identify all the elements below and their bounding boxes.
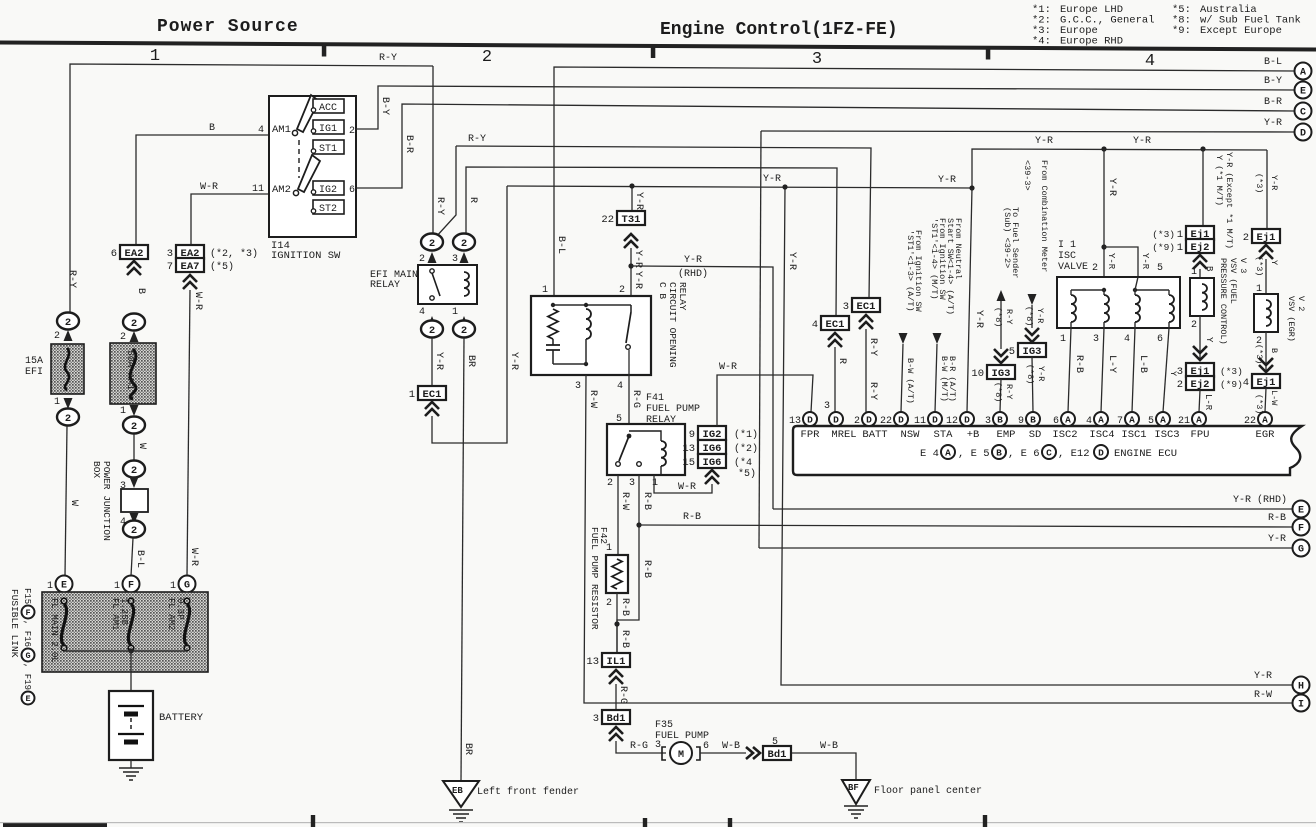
svg-text:F35: F35 [655,720,673,731]
svg-text:3: 3 [843,301,849,313]
svg-text:A: A [945,447,951,458]
svg-text:2: 2 [461,238,467,250]
svg-text:Y: Y [1204,337,1214,343]
wire Y-R RHD to junction E [773,508,1294,510]
svg-text:L-R: L-R [1203,394,1213,411]
svg-text:From Combination Meter: From Combination Meter [1039,160,1049,272]
wire B-L to junction F [131,538,133,576]
svg-text:5: 5 [1157,263,1163,274]
svg-text:R-Y: R-Y [1004,309,1014,324]
svg-text:RELAY: RELAY [677,282,688,311]
svg-text:2: 2 [349,126,355,137]
svg-text:A: A [1196,415,1202,426]
svg-text:ENGINE ECU: ENGINE ECU [1114,448,1177,460]
svg-text:B: B [1030,415,1036,426]
svg-text:2: 2 [131,421,137,433]
svg-text:Bd1: Bd1 [607,713,626,725]
svg-text:3: 3 [629,478,635,489]
svg-text:B: B [996,447,1002,458]
connector 22 T31 [617,211,645,225]
wire B-Y from IG1 to junction E top [356,86,1294,129]
wire Y-R to junction G [759,547,1294,549]
svg-text:1: 1 [1060,334,1066,345]
connector 3 EA2 [176,245,204,259]
svg-text:A: A [1129,415,1135,426]
svg-text:EGR: EGR [1256,429,1276,441]
svg-text:ACC: ACC [319,103,337,114]
svg-text:R-B: R-B [641,560,652,578]
chevron Bd1 5 [746,747,760,759]
svg-text:B: B [209,123,215,134]
wire R-B to junction F [639,525,1294,527]
svg-text:1: 1 [114,581,120,592]
svg-text:2: 2 [606,598,612,609]
svg-text:Y: Y [1269,260,1279,265]
svg-text:2: 2 [1092,263,1098,274]
fusible link FL MAIN 2.0L [61,598,67,604]
svg-text:6: 6 [1157,334,1163,345]
svg-text:(RHD): (RHD) [678,268,708,280]
battery cell symbol [118,706,144,734]
junction dot T31 tap [629,183,634,188]
fusible link FL AM2 0.3P [184,598,190,604]
fuel pump resistor box [606,555,628,593]
fuse 50A AM1 element [130,349,136,399]
chevron EC1 3 [859,315,873,329]
svg-text:12: 12 [946,416,958,427]
svg-text:(*2): (*2) [734,443,758,455]
svg-text:M: M [678,750,684,761]
svg-text:1: 1 [542,285,548,296]
svg-text:R-B: R-B [619,598,630,616]
junction F [123,576,140,593]
svg-text:2: 2 [1191,320,1197,331]
svg-text:FUEL PUMP: FUEL PUMP [655,731,709,742]
ignition switch box [269,96,356,237]
fusible link box [42,592,208,672]
wire B-L from circuit opening relay to junction A [554,67,1294,296]
svg-text:<39-3>: <39-3> [1022,160,1032,191]
svg-text:Europe RHD: Europe RHD [1060,36,1123,48]
svg-text:4: 4 [1086,416,1092,427]
arrow pin3 [460,252,469,263]
svg-text:EB: EB [452,786,463,796]
wire B to VSV3 [1199,269,1201,278]
svg-text:VALVE: VALVE [1058,262,1088,273]
svg-text:A: A [1098,415,1104,426]
svg-text:R-G: R-G [617,686,628,704]
section tick marks [322,45,327,57]
svg-text:W-R: W-R [200,182,218,193]
svg-text:3: 3 [655,740,661,751]
svg-text:R: R [836,358,847,364]
wire B-W to NSW [901,344,903,412]
svg-text:2: 2 [1177,379,1183,391]
arrow into connector [130,331,139,342]
wire B-R from IG2 to junction C [356,104,1294,188]
EFI relay switch [430,269,434,273]
relay internal top rail [553,304,631,306]
svg-text:E: E [1298,506,1304,517]
svg-text:W-B: W-B [820,741,838,752]
arrow out of junction box [130,513,139,524]
wire W-B to ground BF [792,753,856,780]
svg-text:B: B [1269,348,1279,353]
svg-text:3: 3 [1093,334,1099,345]
svg-text:D: D [807,415,813,426]
svg-text:IG3: IG3 [1023,346,1042,358]
svg-text:Engine Control(1FZ-FE): Engine Control(1FZ-FE) [660,20,898,40]
svg-text:1: 1 [452,307,458,318]
svg-text:Y-R: Y-R [1268,534,1286,545]
svg-text:E 4: E 4 [920,448,939,460]
wire R-B to ISC2 [1068,328,1071,412]
junction dot battery feed [128,648,133,653]
engine ECU box [793,426,1302,475]
junction G [179,576,196,593]
fuel pump resistor element [612,559,622,589]
wire R-Y second feed [435,146,456,238]
svg-text:6: 6 [703,741,709,752]
chevron Ej V2 lower [1259,358,1273,372]
connector 2-pin above 50A AM1 [123,314,145,331]
svg-text:D: D [932,415,938,426]
wire BR relay to ground EB [461,338,464,781]
svg-text:B-L: B-L [555,236,566,254]
svg-text:B-R: B-R [403,135,414,153]
svg-text:(*4: (*4 [734,457,752,469]
svg-text:E: E [25,694,30,704]
junction circle H right [1293,677,1310,694]
svg-text:Y-R: Y-R [1035,308,1045,323]
wire W to junction E [65,426,67,576]
wire R-W from relay pin3 to junction I [584,375,1294,703]
svg-text:ISC4: ISC4 [1089,429,1114,441]
wire R-Y horizontal to EC1 3 [456,146,871,299]
svg-text:R-W: R-W [587,390,598,408]
svg-text:2: 2 [65,317,71,329]
svg-text:T31: T31 [622,214,641,226]
svg-text:L-Y: L-Y [1106,355,1117,373]
svg-text:50A AM1: 50A AM1 [125,350,136,390]
connector 2-pin EFI relay pin3 [453,234,475,251]
svg-text:0.3P: 0.3P [175,598,185,620]
svg-text:A: A [1160,415,1166,426]
svg-text:2: 2 [131,525,137,537]
svg-text:EC1: EC1 [423,389,442,401]
svg-text:(*9): (*9) [1152,242,1175,253]
svg-text:W-B: W-B [722,741,740,752]
svg-text:Y-R: Y-R [1036,366,1046,381]
wire L-W to EGR [1265,388,1266,412]
relay capacitor [546,345,560,350]
svg-text:ST2: ST2 [319,204,337,215]
chevron IL1 [609,670,623,684]
connector 5 Bd1 [763,746,791,760]
svg-text:R-Y: R-Y [1004,384,1014,399]
svg-text:3: 3 [575,381,581,392]
ignition terminals ACC IG1 ST1 IG2 ST2 [313,99,344,113]
connector 4 EC1 [821,316,849,330]
svg-text:AM2: AM2 [272,184,291,196]
arrow up to fuel sender [997,290,1006,301]
connector 2-pin into junction box [123,461,145,478]
svg-text:Y-R: Y-R [1254,671,1272,682]
svg-text:*5): *5) [738,468,756,480]
wire R to EC1 4 [466,167,837,318]
svg-text:1: 1 [409,389,415,401]
wire Y-R RHD branch [631,266,773,509]
fuse 15A EFI element [65,348,69,390]
svg-text:Y (*1 M/T): Y (*1 M/T) [1214,155,1224,206]
arrow from combination meter [1028,294,1037,305]
dot bottom rail [584,362,588,366]
svg-text:R-W: R-W [1254,690,1272,701]
svg-text:R-Y: R-Y [66,270,77,288]
relay switch [627,434,632,439]
wire R-Y from fuse 15A EFI to node at top [70,64,433,312]
connector 6 EA2 [120,245,148,259]
svg-text:D: D [964,415,970,426]
connector 2-pin below 15A EFI fuse [57,409,79,426]
svg-text:E: E [1300,87,1306,98]
wire R-B relay pin3 down [617,475,639,653]
connector 3 EC1 [852,298,880,312]
svg-text:7: 7 [167,261,173,273]
svg-text:BR: BR [465,355,476,367]
ISC coil 3 [1135,295,1140,322]
svg-text:STA: STA [934,429,954,441]
svg-text:BR: BR [462,743,473,755]
svg-text:1: 1 [150,47,160,66]
svg-text:Y-R: Y-R [1269,175,1279,190]
relay coil [586,309,591,339]
wire Y-R IG3 to SD [1032,357,1033,412]
wire R-G relay pin4 to fuel pump relay [628,350,630,424]
svg-text:FL MAIN 2.0L: FL MAIN 2.0L [49,598,59,663]
svg-text:EA7: EA7 [181,261,200,273]
svg-text:E: E [61,581,67,592]
ISC coil 1 [1071,295,1076,322]
bottom scan bar [3,823,107,827]
svg-text:B-Y: B-Y [1264,76,1282,87]
svg-text:D: D [1300,129,1306,140]
svg-text:11: 11 [252,184,264,195]
svg-text:FPR: FPR [801,429,821,441]
svg-text:, E12: , E12 [1058,448,1090,460]
svg-text:L-B: L-B [1137,355,1148,373]
svg-text:Y-R: Y-R [684,255,702,266]
dot rail left [551,303,555,307]
chevron Ej V3 [1193,255,1207,269]
connector 2-pin EFI relay pin4 [421,321,443,338]
svg-text:ISC1: ISC1 [1121,429,1146,441]
ISC coil 4 [1169,295,1174,322]
fuse 50A AM1 body [110,343,156,404]
svg-text:(*9): (*9) [1220,379,1243,390]
wire R-W relay pin2 to resistor [617,475,619,555]
svg-text:FUEL PUMP: FUEL PUMP [646,404,700,415]
svg-text:R-Y: R-Y [468,134,486,145]
svg-text:2: 2 [482,48,492,67]
fuel pump motor [662,747,700,760]
svg-text:Except Europe: Except Europe [1200,25,1282,37]
svg-text:1: 1 [47,581,53,592]
svg-text:1: 1 [652,478,658,489]
svg-text:(*3): (*3) [1152,229,1175,240]
connector 7 EA7 [176,258,204,272]
connector 2 Ej2 V3 lower [1186,376,1214,390]
svg-text:B: B [997,415,1003,426]
svg-text:'ST1'<1-3> (A/T): 'ST1'<1-3> (A/T) [905,230,915,312]
chevron IG3 10 [994,349,1008,363]
svg-text:B-W (A/T): B-W (A/T) [905,358,915,404]
svg-text:Y-R: Y-R [786,252,797,270]
svg-text:1: 1 [1177,242,1183,254]
svg-text:G: G [1298,545,1304,556]
svg-text:R-B: R-B [683,512,701,523]
svg-text:Y-R (RHD): Y-R (RHD) [1233,494,1287,506]
svg-text:W-R: W-R [678,482,696,493]
bottom tick marks [311,815,315,827]
junction dot V3 tap [1200,146,1205,151]
svg-text:(*3): (*3) [1254,394,1264,414]
wire Y-R branch to pin5 [1104,247,1138,277]
arrow into connector [64,330,73,341]
EFI main relay box [418,265,477,304]
svg-text:W: W [136,443,147,449]
svg-text:B-L: B-L [134,550,145,568]
svg-text:7: 7 [1117,416,1123,427]
svg-text:F15: F15 [22,588,32,604]
chevron IG3 5 [1025,328,1039,342]
svg-text:B: B [135,288,146,294]
svg-text:3: 3 [593,713,599,725]
svg-text:Y-R: Y-R [1035,136,1053,147]
svg-text:R-Y: R-Y [867,382,878,400]
wire Y-R T31 to relay pin 2 [630,248,632,296]
bus inside fusible link box [64,650,187,652]
svg-text:9: 9 [1018,416,1024,427]
circuit opening relay box [531,296,651,375]
svg-text:ISC3: ISC3 [1154,429,1179,441]
arrow out of fuse [64,398,73,409]
svg-text:2: 2 [619,285,625,296]
connector 1 EC1 [418,386,446,400]
connector 3 Ej1 V3 lower [1186,363,1214,377]
svg-text:*4:: *4: [1032,36,1051,48]
svg-text:4: 4 [812,319,818,331]
svg-text:R-W: R-W [619,492,630,510]
connector 13 IG6 [698,440,726,454]
chevron EA2 [127,261,141,275]
svg-text:D: D [898,415,904,426]
svg-text:(*3): (*3) [1220,366,1243,377]
svg-text:2: 2 [429,325,435,337]
wire L-Y to ISC4 [1101,328,1104,412]
svg-text:(*2, *3): (*2, *3) [210,248,258,260]
connector 5 IG3 [1018,343,1046,357]
svg-text:EFI: EFI [25,367,43,378]
svg-text:2: 2 [131,465,137,477]
svg-text:Y-R: Y-R [973,310,984,328]
svg-text:1: 1 [1191,267,1197,278]
svg-text:6: 6 [1053,416,1059,427]
svg-text:Y: Y [1168,371,1178,376]
svg-text:Y-R: Y-R [632,250,643,268]
svg-text:3: 3 [985,416,991,427]
chevron IG6 [705,470,719,484]
svg-text:W-R: W-R [719,362,737,373]
svg-text:1: 1 [606,543,612,554]
junction circle E top right [1295,82,1312,99]
svg-text:R-Y: R-Y [379,53,397,64]
chevron T31 [624,234,638,248]
svg-text:2: 2 [429,238,435,250]
svg-text:H: H [1298,682,1304,693]
svg-text:Floor panel center: Floor panel center [874,785,982,797]
svg-text:B-R: B-R [1264,97,1282,108]
fuel pump relay box [607,424,685,475]
wire R-Y down to EFI main relay pin 2 [432,66,434,234]
key wedge AM2 [298,155,320,192]
svg-text:EC1: EC1 [826,319,845,331]
svg-text:Y-R: Y-R [938,175,956,186]
junction dot RHD branch [628,263,633,268]
svg-text:PRESSURE CONTROL): PRESSURE CONTROL) [1218,258,1228,345]
junction dot ISC branch [1101,244,1106,249]
svg-text:W-R: W-R [188,548,199,566]
svg-text:Y-R: Y-R [1140,253,1150,270]
svg-text:Left front fender: Left front fender [477,786,579,798]
chevron Ej V2 [1259,245,1273,259]
svg-text:IG1: IG1 [319,124,337,135]
svg-text:EC1: EC1 [857,301,876,313]
svg-text:F: F [25,608,30,618]
svg-text:Y-R: Y-R [433,352,444,370]
VSV3 box [1190,278,1214,316]
ECU pin connectors [803,412,817,426]
svg-text:Y-R: Y-R [1106,253,1116,270]
svg-text:EMP: EMP [997,429,1016,441]
svg-text:F: F [1298,524,1304,535]
ISC coil 2 [1104,295,1109,322]
VSV2 box [1254,294,1278,332]
svg-text:6: 6 [349,185,355,196]
svg-text:Y-R: Y-R [763,174,781,185]
wire to ISC3 [1163,328,1169,412]
svg-text:Y-R (Except *1 M/T): Y-R (Except *1 M/T) [1224,152,1234,249]
chevron EC1 [425,402,439,416]
svg-text:Y-R: Y-R [633,192,644,210]
svg-text:RELAY: RELAY [370,280,400,291]
svg-text:FPU: FPU [1191,429,1210,441]
wire W-R from IG2 to FPR [717,375,813,426]
svg-text:NSW: NSW [901,429,921,441]
connector 2-pin above 15A EFI fuse [57,313,79,330]
svg-text:Ej2: Ej2 [1191,242,1210,254]
svg-text:13: 13 [682,443,695,455]
arrow pin1 [460,316,469,327]
svg-text:5: 5 [1009,346,1015,358]
junction dot resistor out [614,621,619,626]
wire battery positive [130,651,132,691]
relay internal bottom rail [553,363,586,365]
arrow pin2 [428,252,437,263]
svg-text:R-B: R-B [1073,355,1084,373]
wire W-R from ignition AM2 to EA2/EA7 [191,194,269,246]
junction circle E right [1293,501,1310,518]
